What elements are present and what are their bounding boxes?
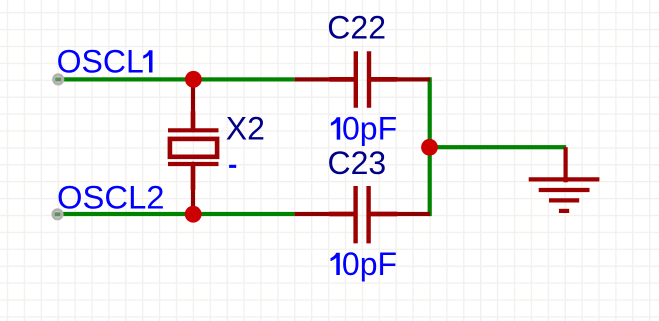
- svg-text:C23: C23: [328, 145, 387, 181]
- wire to ground: [430, 145, 567, 149]
- ground stem: [563, 147, 567, 182]
- junction right vertical to ground branch: [421, 139, 438, 156]
- ground: [529, 147, 600, 211]
- C23 pin 2 (right): [371, 212, 397, 217]
- C22 left plate: [354, 51, 358, 108]
- wire stub X2 to junction2: [191, 188, 195, 215]
- svg-text:0pF: 0pF: [342, 246, 397, 282]
- ground bar 2: [539, 188, 590, 192]
- svg-text:X2: X2: [226, 110, 265, 146]
- X2 pin 2 (bottom): [191, 164, 196, 189]
- ground bar 3: [549, 198, 579, 202]
- ground bar 1: [529, 177, 600, 181]
- wire stub C22 to right vertical: [396, 77, 430, 81]
- wire right vertical: [428, 77, 432, 216]
- ground bar 4: [559, 209, 569, 213]
- svg-text:OSCL: OSCL: [57, 44, 144, 80]
- pin terminal OSCL1: [52, 73, 64, 85]
- C23 left plate: [353, 186, 357, 243]
- value label '-' for X2: [229, 165, 236, 168]
- C22 pin 2 (right): [371, 77, 396, 82]
- junction on OSCL2 at crystal: [185, 206, 202, 223]
- value 10pF for C23: [331, 246, 398, 282]
- X2 top plate: [168, 128, 219, 132]
- X2 bottom plate: [168, 162, 219, 166]
- svg-text:OSCL2: OSCL2: [57, 179, 165, 216]
- C23 right plate: [366, 186, 370, 243]
- wire OSCL2: [58, 212, 295, 216]
- wire stub C23 to right vertical: [396, 212, 430, 216]
- capacitor C23: [330, 186, 397, 243]
- wire stub junction1 to X2: [191, 79, 195, 113]
- C22 right plate: [367, 51, 371, 108]
- junction on OSCL1 at crystal: [185, 71, 202, 88]
- value 10pF for C22: [331, 111, 397, 147]
- wire OSCL1: [58, 77, 295, 81]
- crystal X2: [168, 112, 219, 189]
- svg-text:0pF: 0pF: [342, 111, 397, 147]
- X2 body: [170, 139, 217, 157]
- net label OSCL1: [57, 44, 153, 80]
- pin terminal OSCL2: [51, 208, 63, 220]
- X2 pin 1 (top): [191, 112, 196, 130]
- wire stub OSCL1 to C22: [295, 77, 331, 81]
- C22 pin 1 (left): [330, 77, 354, 82]
- C23 pin 1 (left): [330, 212, 353, 217]
- wire stub OSCL2 to C23: [295, 212, 331, 216]
- svg-text:C22: C22: [327, 9, 386, 45]
- capacitor C22: [330, 51, 397, 108]
